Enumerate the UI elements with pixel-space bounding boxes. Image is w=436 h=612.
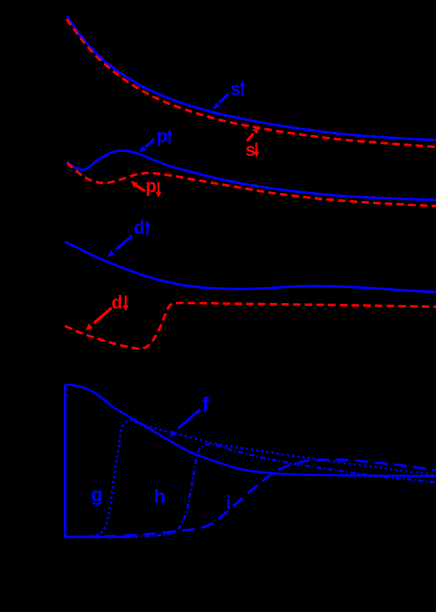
axis baseline (bottom panel): [65, 536, 130, 538]
curve d-up (blue solid): [65, 242, 436, 292]
svg-text:i: i: [226, 493, 231, 514]
curve f (blue solid): [65, 385, 436, 477]
svg-text:f: f: [202, 394, 210, 417]
curve p-up (blue solid): [67, 151, 436, 200]
label s-down: [246, 127, 260, 161]
curve d-down (red dashed): [65, 303, 436, 349]
axis vertical line (bottom panel): [64, 385, 67, 538]
label s-up: [213, 79, 245, 110]
svg-text:s: s: [246, 140, 256, 160]
svg-text:g: g: [91, 485, 103, 506]
label d-down: [86, 293, 129, 331]
curve p-down (red dashed): [67, 163, 436, 206]
curve s-up (blue solid): [67, 16, 436, 140]
curve h (blue dash-dot): [65, 444, 436, 537]
svg-text:h: h: [154, 487, 166, 508]
svg-text:s: s: [231, 79, 241, 99]
curve i (blue long dash): [65, 460, 436, 537]
svg-text:p: p: [146, 176, 157, 196]
label d-up: [108, 218, 151, 257]
label p-down: [131, 176, 162, 198]
curve g (blue dotted): [65, 420, 436, 537]
curve s-down (red dashed): [67, 19, 436, 147]
svg-text:d: d: [134, 218, 145, 238]
label f: [170, 394, 211, 438]
svg-text:d: d: [112, 293, 123, 313]
svg-text:p: p: [157, 126, 168, 146]
label p-up: [139, 126, 172, 153]
